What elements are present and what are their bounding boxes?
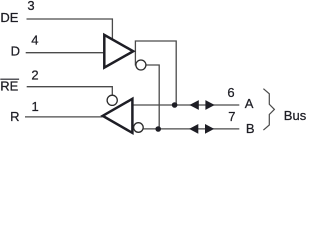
wire bus B rail <box>143 128 239 130</box>
svg-text:7: 7 <box>228 109 235 124</box>
wire D to driver input <box>26 52 104 54</box>
wire RE to receiver enable bubble <box>27 87 113 96</box>
driver D1 triangle <box>104 35 133 68</box>
junction dot node B <box>155 126 161 132</box>
receiver B input bubble <box>134 123 144 133</box>
receiver enable bubble <box>107 95 117 105</box>
wire driver output up-right to A <box>135 41 176 105</box>
svg-text:6: 6 <box>227 85 234 100</box>
bus A bidirectional arrowheads <box>189 100 198 110</box>
wire DE to driver enable <box>27 19 113 39</box>
svg-text:3: 3 <box>27 0 34 13</box>
svg-text:RE: RE <box>0 78 18 93</box>
wire bus A rail <box>133 104 239 106</box>
svg-text:A: A <box>245 96 254 111</box>
svg-text:D: D <box>11 43 20 58</box>
svg-text:Bus: Bus <box>284 108 307 123</box>
svg-text:DE: DE <box>0 10 18 25</box>
receiver R1 triangle <box>103 99 133 133</box>
bus brace <box>263 89 274 130</box>
wire driver inverting output down to B <box>146 65 159 129</box>
label RE (overline) <box>0 78 19 80</box>
svg-text:B: B <box>246 121 255 136</box>
svg-text:R: R <box>10 109 19 124</box>
svg-text:1: 1 <box>31 99 38 114</box>
bus B bidirectional arrowheads <box>189 124 198 134</box>
junction dot node A <box>172 102 178 108</box>
driver inverting output bubble <box>136 60 146 70</box>
svg-text:2: 2 <box>31 68 38 83</box>
svg-text:4: 4 <box>31 33 38 48</box>
wire R to receiver output <box>25 116 103 118</box>
